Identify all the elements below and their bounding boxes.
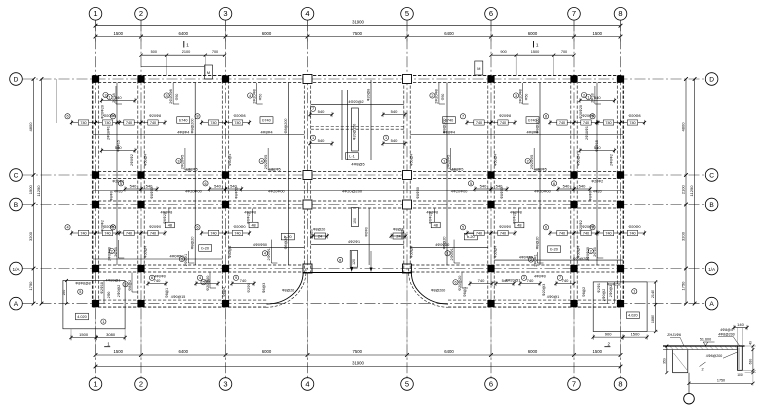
svg-text:540: 540	[391, 109, 398, 114]
svg-text:540: 540	[318, 109, 325, 114]
svg-text:5: 5	[120, 182, 122, 186]
svg-text:31900: 31900	[352, 20, 364, 25]
svg-text:b740: b740	[179, 118, 187, 122]
svg-text:2Φ18Φ1: 2Φ18Φ1	[585, 126, 589, 140]
bay 1 upper-floor lower marks (narrow)	[102, 150, 136, 152]
bay 3 upper-floor bottom rebar leader	[267, 148, 269, 170]
bay 7 lower-floor rebar leader (narrow)	[596, 240, 598, 258]
svg-text:4Φ2Φ1: 4Φ2Φ1	[348, 240, 360, 244]
right stair inner riser lines	[606, 282, 608, 304]
porch arc left inner (dashed)	[264, 269, 306, 308]
svg-text:2: 2	[523, 276, 525, 280]
svg-text:7: 7	[572, 379, 576, 388]
svg-text:100: 100	[737, 373, 743, 377]
svg-text:6: 6	[553, 182, 555, 186]
svg-text:2Φ0@2: 2Φ0@2	[602, 289, 606, 301]
grid line axis 5 (vertical)	[406, 20, 408, 377]
svg-text:4.020: 4.020	[77, 315, 87, 319]
svg-text:Φ20Φ2: Φ20Φ2	[591, 180, 603, 184]
beam band along axis 6 (dashed pair)	[487, 76, 489, 308]
svg-text:1: 1	[108, 95, 110, 99]
detail leader line down to bubble	[688, 373, 690, 394]
svg-text:540: 540	[146, 184, 153, 189]
svg-text:1/A: 1/A	[708, 267, 716, 272]
svg-text:2Φ0Φ1: 2Φ0Φ1	[533, 254, 537, 266]
svg-text:2Φ0Φ2: 2Φ0Φ2	[130, 154, 134, 166]
svg-text:7: 7	[312, 107, 314, 111]
svg-text:2: 2	[701, 368, 703, 372]
svg-text:Φ20Φ8: Φ20Φ8	[499, 114, 511, 118]
svg-text:4Φ8Φ4: 4Φ8Φ4	[260, 131, 272, 135]
detail section column left flange	[672, 350, 674, 373]
svg-text:6400: 6400	[179, 349, 189, 354]
svg-text:3: 3	[177, 159, 179, 163]
svg-text:1750: 1750	[681, 281, 686, 291]
bay 1 upper-floor upper marks (narrow)	[102, 100, 136, 102]
svg-text:M: M	[207, 71, 210, 75]
svg-text:3200: 3200	[681, 231, 686, 241]
svg-text:b-20: b-20	[467, 235, 475, 239]
column at axis 4 x B (open)	[303, 200, 312, 209]
lobby lower shaft box	[350, 251, 357, 268]
lobby vertical secondary beam	[368, 208, 370, 265]
column at axis 7 x C	[570, 171, 577, 178]
top partial dimension axes 6-7	[491, 54, 574, 56]
column at axis 3 x C	[222, 171, 229, 178]
svg-text:Φ20Φ0: Φ20Φ0	[233, 225, 245, 229]
svg-text:1500: 1500	[114, 349, 124, 354]
secondary beam B-1/A bay 1-2 and 2-3 (horizontal)	[93, 258, 222, 260]
svg-text:6: 6	[151, 276, 153, 280]
svg-text:740: 740	[150, 121, 156, 125]
svg-text:740: 740	[104, 121, 110, 125]
beam band along axis A right part (dashed pair)	[448, 299, 623, 301]
svg-text:6400: 6400	[444, 349, 454, 354]
svg-text:1500: 1500	[28, 185, 33, 195]
detail right vertical dimension	[752, 346, 754, 373]
porch arc right (solid)	[411, 272, 448, 304]
svg-text:2: 2	[104, 93, 106, 97]
strip 1/A-A left leader	[209, 273, 211, 289]
left stair dimension line	[71, 337, 96, 339]
porch column extension line right	[406, 272, 408, 331]
svg-text:3: 3	[223, 9, 227, 18]
svg-text:1750: 1750	[717, 378, 725, 382]
svg-text:6: 6	[454, 281, 456, 285]
svg-text:740: 740	[605, 121, 611, 125]
axis bubble D left	[10, 73, 23, 86]
svg-text:4Φ8@200: 4Φ8@200	[718, 332, 734, 336]
svg-text:Φ20Φ8: Φ20Φ8	[149, 114, 161, 118]
beam band along axis 1/A right part	[411, 264, 623, 266]
axis bubble 2 bottom	[135, 378, 148, 391]
svg-text:5: 5	[405, 379, 409, 388]
svg-text:1: 1	[633, 290, 635, 294]
bay 5 lower-floor bottom rebar leader	[453, 240, 455, 263]
beam band along axis B (dashed pair)	[93, 200, 623, 202]
axis bubble 2 top	[135, 8, 148, 21]
svg-text:Φ2Φ18: Φ2Φ18	[100, 282, 104, 294]
svg-text:900: 900	[605, 332, 612, 337]
svg-text:5: 5	[79, 290, 81, 294]
column at axis 4 x D (open)	[303, 75, 312, 84]
stair bay boxed label	[346, 153, 359, 160]
detail left vertical dimension 350	[666, 346, 668, 373]
secondary beam between D and C west part (horizontal)	[93, 134, 304, 136]
svg-text:740: 740	[210, 121, 216, 125]
svg-text:4Φ20: 4Φ20	[114, 190, 123, 194]
svg-text:3200: 3200	[28, 231, 33, 241]
svg-text:2: 2	[527, 159, 529, 163]
bay 7 upper-floor upper marks (narrow)	[580, 100, 615, 102]
bay 5 upper-floor boxed beam label	[443, 117, 456, 124]
top partial dimension axes 2-3	[141, 54, 226, 56]
axis bubble 1 bottom	[89, 378, 102, 391]
svg-text:Φ50@4: Φ50@4	[228, 246, 232, 258]
svg-text:Φ50@4: Φ50@4	[494, 246, 498, 258]
svg-text:1: 1	[446, 252, 448, 256]
lobby mid beam (solid)	[311, 244, 404, 246]
svg-text:1: 1	[536, 43, 539, 48]
svg-text:48: 48	[168, 223, 172, 227]
svg-text:6: 6	[204, 182, 206, 186]
secondary beam in bay 2-3 (vertical)	[194, 83, 196, 266]
left stair inner riser line	[103, 281, 105, 304]
svg-text:740: 740	[126, 121, 132, 125]
svg-text:740: 740	[478, 278, 485, 283]
right exterior stair outline	[593, 282, 647, 332]
svg-text:2Φ18Φ1: 2Φ18Φ1	[107, 126, 111, 140]
svg-text:Φ8Φ50: Φ8Φ50	[416, 187, 420, 199]
svg-text:6: 6	[196, 226, 198, 230]
left stair side vertical dimension	[66, 281, 68, 304]
right dimension line (bays)	[685, 79, 687, 304]
svg-text:2Φ0Φ1: 2Φ0Φ1	[450, 248, 454, 260]
span dimensions straddling axis 7 lower floor	[543, 225, 548, 230]
secondary beam between D and C east part (horizontal)	[410, 134, 623, 136]
column at axis 1 x D	[92, 75, 99, 82]
strip 1/A-A bay6-7 span dimension	[520, 283, 540, 285]
beam band along axis 1/A left part	[93, 264, 303, 266]
stairwell opening rectangle	[352, 108, 359, 151]
span dimensions straddling axis 6 corridor	[468, 181, 473, 186]
svg-text:Φ0Φ250: Φ0Φ250	[607, 283, 621, 287]
grid line axis D (horizontal)	[23, 78, 706, 80]
svg-text:1: 1	[102, 320, 104, 324]
left stair section mark 1	[104, 346, 110, 348]
bay 2 upper-floor bottom rebar leader	[184, 148, 186, 170]
svg-text:Φ20Φ0: Φ20Φ0	[628, 225, 640, 229]
grid line axis 7 (vertical)	[573, 20, 575, 377]
beam band along axis 3 (dashed pair)	[221, 76, 223, 308]
bay 6 upper-floor top rebar leader	[522, 83, 524, 104]
bay 2 lower-floor top rebar leader with boxed label	[168, 209, 170, 223]
stairwell flight line left	[341, 90, 343, 160]
svg-text:Φ20Φ8: Φ20Φ8	[233, 114, 245, 118]
svg-text:740: 740	[80, 121, 86, 125]
stair bay right span dimensions	[383, 114, 405, 116]
svg-text:4Φ8Φ8: 4Φ8Φ8	[161, 210, 173, 214]
left exterior stair outline	[63, 281, 125, 329]
svg-text:ΦΦ20: ΦΦ20	[401, 229, 405, 238]
svg-text:8: 8	[339, 258, 341, 262]
svg-text:1: 1	[385, 136, 387, 140]
column at axis 3 x 1/A	[222, 265, 229, 272]
svg-text:4: 4	[249, 94, 251, 98]
svg-text:4Φ8@5: 4Φ8@5	[351, 163, 364, 167]
detail section slab soffit	[663, 349, 738, 351]
column at axis 8 x A	[617, 300, 624, 307]
svg-text:Φ8@2: Φ8@2	[128, 280, 132, 291]
column at axis 5 x B (open)	[403, 200, 412, 209]
detail section edge beam inner bar	[738, 348, 740, 370]
svg-text:4Φ8Φ8: 4Φ8Φ8	[510, 210, 522, 214]
column at axis 7 x D	[570, 75, 577, 82]
strip 1/A-A right leaders	[461, 273, 463, 289]
secondary beam in bay 5-6 (vertical)	[446, 83, 448, 266]
svg-text:2Φ0Φ1: 2Φ0Φ1	[184, 254, 188, 266]
axis bubble 8 top	[614, 8, 627, 21]
svg-text:540: 540	[115, 95, 122, 100]
bottom overall dimension 31900	[96, 366, 621, 368]
bay 5 lower-floor top rebar leader with boxed label	[434, 209, 436, 223]
svg-text:2: 2	[583, 93, 585, 97]
svg-text:b740: b740	[262, 118, 270, 122]
svg-text:40: 40	[749, 341, 753, 345]
svg-text:740: 740	[629, 232, 635, 236]
grid line axis 2 (vertical)	[140, 20, 142, 377]
bay 1 lower-floor rebar leader (narrow)	[117, 240, 119, 258]
axis bubble 3 bottom	[219, 378, 232, 391]
svg-text:2: 2	[111, 249, 113, 253]
column at axis 2 x B	[137, 201, 144, 208]
svg-text:3: 3	[124, 283, 126, 287]
stairwell flight line left2	[346, 90, 348, 160]
detail section slab top line	[663, 345, 745, 347]
grid line axis 4 (vertical)	[307, 20, 309, 377]
secondary beam B-1/A bay 6-7 and 7-8 (horizontal)	[494, 259, 623, 261]
bay 7 upper-floor lower marks (narrow)	[580, 150, 615, 152]
svg-text:Φ8@200: Φ8@200	[191, 119, 195, 134]
span dimensions straddling axis 3 corridor	[203, 181, 208, 186]
svg-text:Φ20Φ0: Φ20Φ0	[499, 225, 511, 229]
svg-text:5: 5	[405, 9, 409, 18]
svg-text:Φ6Φ0: Φ6Φ0	[365, 227, 369, 236]
svg-text:4: 4	[66, 226, 68, 230]
beam band along axis 2 (dashed pair)	[137, 76, 139, 308]
svg-text:6000: 6000	[262, 349, 272, 354]
bay 5 lower-floor boxed beam label	[464, 233, 477, 240]
column at axis 2 x D	[137, 75, 144, 82]
top dimension line (bays)	[96, 36, 621, 38]
svg-text:4Φ20@200: 4Φ20@200	[342, 189, 363, 194]
column at axis 8 x D	[617, 75, 624, 82]
svg-text:Φ50@4: Φ50@4	[144, 246, 148, 258]
svg-text:540: 540	[496, 184, 503, 189]
svg-text:Φ20@20: Φ20@20	[458, 276, 462, 291]
span dimensions straddling axis 1 upper floor	[65, 114, 70, 119]
svg-text:24: 24	[318, 234, 322, 238]
column at axis 1 x 1/A	[92, 265, 99, 272]
stairwell flight line right	[370, 80, 372, 160]
lobby shaft box below axis B	[351, 208, 358, 227]
grid line axis C (horizontal)	[23, 174, 706, 176]
svg-text:5: 5	[112, 226, 114, 230]
bay 5 upper-floor top rebar leader	[438, 83, 440, 104]
svg-text:6000: 6000	[528, 31, 538, 36]
svg-text:Φ50: Φ50	[525, 94, 529, 101]
svg-text:1500: 1500	[593, 349, 603, 354]
svg-text:540: 540	[594, 95, 601, 100]
porch column at axis 5 x 1/A (open)	[403, 264, 412, 273]
column at axis 8 x 1/A	[617, 265, 624, 272]
axis bubble B left	[10, 198, 23, 211]
svg-text:740: 740	[583, 232, 589, 236]
svg-text:740: 740	[234, 121, 240, 125]
bay 5 upper-floor bottom rebar leader	[450, 148, 452, 170]
right stair section mark 2	[604, 346, 610, 348]
svg-text:2Φ20Φ8: 2Φ20Φ8	[435, 89, 439, 104]
axis bubble B right	[705, 198, 718, 211]
secondary beam corridor C-B (horizontal)	[93, 190, 623, 192]
svg-text:Φ20@200: Φ20@200	[573, 257, 589, 261]
svg-text:5: 5	[470, 182, 472, 186]
svg-text:740: 740	[476, 232, 482, 236]
svg-text:9: 9	[235, 276, 237, 280]
secondary beam in bay 6-7 (vertical)	[539, 83, 541, 266]
porch column extension line left	[307, 272, 309, 331]
axis bubble 1/A right	[705, 262, 718, 275]
svg-text:3: 3	[223, 379, 227, 388]
axis bubble 3 top	[219, 8, 232, 21]
column at axis 3 x B	[222, 201, 229, 208]
svg-text:4: 4	[305, 9, 309, 18]
strip 1/A-A bay2-3 span dimension	[148, 283, 166, 285]
span dimensions straddling axis 7 upper floor	[543, 114, 548, 119]
svg-text:1: 1	[186, 43, 189, 48]
column at axis 6 x B	[487, 201, 494, 208]
svg-text:3: 3	[515, 94, 517, 98]
detail section-2 mark inside	[700, 362, 706, 367]
stair bay mid beam (dashed pair)	[311, 125, 404, 127]
svg-text:4: 4	[305, 379, 309, 388]
svg-text:4Φ8@200: 4Φ8@200	[706, 354, 722, 358]
detail annotation top-right leader	[733, 336, 740, 346]
column at axis 5 x D (open)	[403, 75, 412, 84]
svg-text:2100: 2100	[182, 50, 190, 54]
axis bubble C right	[705, 169, 718, 182]
svg-text:2Φ0Φ2: 2Φ0Φ2	[610, 154, 614, 166]
svg-text:4: 4	[264, 252, 266, 256]
svg-text:Φ8@200: Φ8@200	[536, 119, 540, 134]
svg-text:740: 740	[583, 121, 589, 125]
svg-text:4Φ20Φ00: 4Φ20Φ00	[534, 190, 551, 194]
svg-text:Φ8Φ15: Φ8Φ15	[117, 140, 121, 152]
flue opening left above axis D	[205, 65, 213, 79]
bay 3 lower-floor bottom rebar leader	[270, 240, 272, 263]
bay 2 lower-floor boxed beam label	[199, 245, 212, 252]
svg-text:7: 7	[559, 276, 561, 280]
svg-text:740: 740	[80, 232, 86, 236]
svg-text:1: 1	[93, 9, 97, 18]
left stair level box	[76, 313, 89, 320]
svg-text:540: 540	[391, 138, 398, 143]
svg-text:740: 740	[527, 278, 534, 283]
detail 140 dimension above beam	[734, 327, 747, 329]
axis bubble D right	[705, 73, 718, 86]
axis bubble 8 bottom	[614, 378, 627, 391]
svg-text:Φ50: Φ50	[259, 94, 263, 101]
column at axis 2 x C	[137, 171, 144, 178]
svg-text:D: D	[14, 76, 19, 83]
secondary beam in bay 7-8 (vertical)	[596, 83, 598, 266]
svg-text:7: 7	[462, 115, 464, 119]
svg-text:2Φ20Φ5: 2Φ20Φ5	[181, 155, 185, 170]
axis bubble C left	[10, 169, 23, 182]
detail section column base	[673, 372, 688, 374]
svg-text:1: 1	[443, 159, 445, 163]
svg-text:4Φ0@1: 4Φ0@1	[547, 295, 559, 299]
section mark 1 (top left)	[183, 41, 185, 48]
svg-text:120: 120	[352, 259, 356, 265]
svg-text:4: 4	[199, 276, 201, 280]
beam band along axis 8 (dashed pair)	[616, 76, 618, 308]
svg-text:7: 7	[112, 115, 114, 119]
svg-text:Φ8@20: Φ8@20	[191, 237, 195, 250]
span dimensions straddling axis 8 lower floor	[590, 225, 595, 230]
svg-text:540: 540	[480, 184, 487, 189]
svg-text:Φ8@20: Φ8@20	[443, 237, 447, 250]
left extra extension line	[55, 79, 57, 123]
strip 1/A-A bay6-7 extra marks	[556, 283, 574, 285]
svg-text:2: 2	[139, 379, 143, 388]
column at axis 8 x C	[617, 171, 624, 178]
svg-text:740: 740	[559, 232, 565, 236]
stair bay left span dimensions	[310, 114, 332, 116]
bay 3 lower-floor boxed beam label	[281, 233, 294, 240]
svg-text:6400: 6400	[444, 31, 454, 36]
span dimensions straddling axis 7 corridor	[551, 181, 556, 186]
span dimensions straddling axis 2 upper floor	[110, 114, 115, 119]
svg-text:2Φ20Φ8: 2Φ20Φ8	[518, 89, 522, 104]
axis bubble A left	[10, 297, 23, 310]
svg-text:740: 740	[500, 121, 506, 125]
column at axis 1 x A	[92, 300, 99, 307]
top overall dimension line 31900	[96, 25, 621, 27]
svg-text:51.600: 51.600	[700, 338, 711, 342]
grid line axis 3 (vertical)	[225, 20, 227, 377]
svg-text:740: 740	[559, 121, 565, 125]
svg-text:4Φ8Φ5: 4Φ8Φ5	[186, 167, 198, 171]
column at axis 7 x B	[570, 201, 577, 208]
svg-text:5: 5	[462, 226, 464, 230]
svg-text:4Φ20Φ00: 4Φ20Φ00	[268, 190, 285, 194]
detail bottom dimension 1750	[689, 382, 753, 384]
svg-text:4Φ8Φ8: 4Φ8Φ8	[426, 210, 438, 214]
beam band along axis D (dashed pair)	[93, 75, 623, 77]
span dimensions straddling axis 2 corridor	[118, 181, 123, 186]
column at axis 7 x A	[570, 300, 577, 307]
svg-text:1500: 1500	[79, 332, 89, 337]
svg-text:740: 740	[240, 278, 247, 283]
svg-text:11250: 11250	[689, 185, 694, 197]
beam band along axis 4 (dashed pair)	[303, 76, 305, 273]
svg-text:4Φ20@2: 4Φ20@2	[348, 100, 363, 104]
axis bubble 5 bottom	[401, 378, 414, 391]
svg-text:4Φ0Φ0: 4Φ0Φ0	[154, 275, 166, 279]
lobby right span dimension with box	[391, 235, 406, 237]
svg-text:Φ8@200: Φ8@200	[431, 289, 445, 293]
